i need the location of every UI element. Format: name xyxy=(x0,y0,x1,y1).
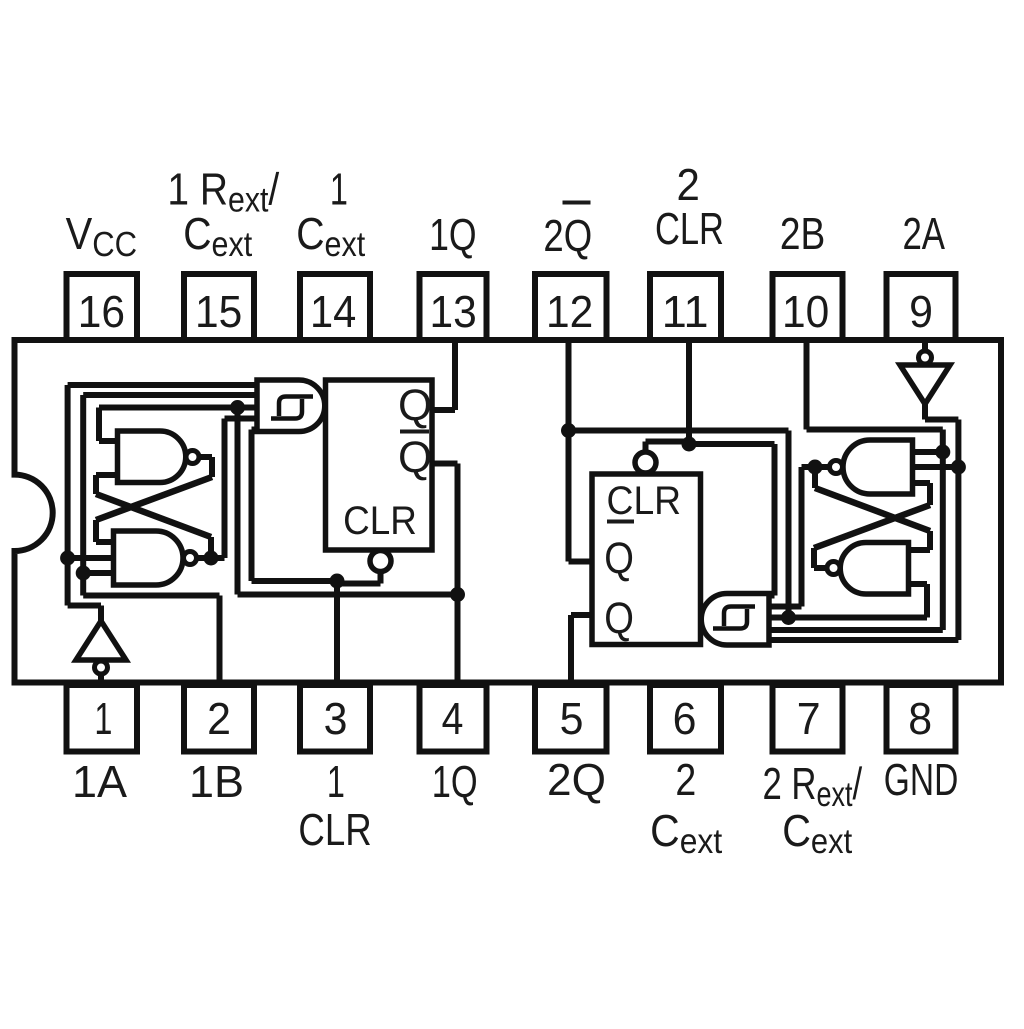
svg-text:12: 12 xyxy=(546,286,593,337)
svg-text:13: 13 xyxy=(429,286,476,337)
svg-text:1A: 1A xyxy=(72,756,127,807)
svg-text:10: 10 xyxy=(782,286,829,337)
svg-text:15: 15 xyxy=(195,286,242,337)
svg-text:CLR: CLR xyxy=(298,804,371,855)
svg-text:Q: Q xyxy=(398,381,432,430)
svg-text:4: 4 xyxy=(442,693,464,744)
svg-text:1Q: 1Q xyxy=(432,756,478,807)
svg-text:8: 8 xyxy=(908,693,932,744)
svg-text:1Q: 1Q xyxy=(429,209,476,260)
svg-text:2Q: 2Q xyxy=(543,210,592,261)
svg-text:1: 1 xyxy=(330,164,348,215)
svg-text:CLR: CLR xyxy=(607,479,682,523)
svg-text:Q: Q xyxy=(604,594,634,643)
svg-text:2A: 2A xyxy=(902,208,945,259)
svg-text:16: 16 xyxy=(78,286,125,337)
svg-text:6: 6 xyxy=(673,693,697,744)
svg-text:5: 5 xyxy=(560,693,584,744)
svg-text:2Q: 2Q xyxy=(547,754,606,805)
svg-text:2: 2 xyxy=(207,693,231,744)
svg-text:3: 3 xyxy=(324,693,348,744)
svg-text:7: 7 xyxy=(797,693,821,744)
svg-text:CLR: CLR xyxy=(655,203,724,254)
svg-text:CLR: CLR xyxy=(343,499,417,543)
svg-text:14: 14 xyxy=(310,286,356,337)
svg-text:2B: 2B xyxy=(780,208,825,259)
svg-text:1B: 1B xyxy=(189,756,244,807)
svg-text:GND: GND xyxy=(884,754,958,805)
svg-text:Q: Q xyxy=(398,433,432,482)
svg-text:11: 11 xyxy=(662,286,709,337)
svg-text:1: 1 xyxy=(327,756,345,807)
svg-text:1: 1 xyxy=(94,693,112,744)
svg-text:2: 2 xyxy=(675,754,696,805)
svg-text:Q: Q xyxy=(604,534,634,583)
svg-text:9: 9 xyxy=(909,286,933,337)
